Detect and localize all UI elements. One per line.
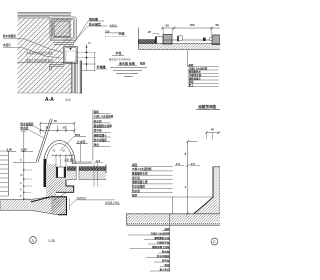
svg-text:水位: 水位 (116, 50, 122, 55)
right slab outline (67, 167, 106, 180)
svg-text:面砖: 面砖 (132, 163, 138, 167)
vertical dim line (188, 141, 198, 213)
sealant dashed rect (66, 51, 76, 62)
right slab end cap (105, 165, 107, 174)
svg-text:水泥钉: 水泥钉 (3, 43, 11, 47)
cut double line (80, 61, 81, 94)
pocket 2 (179, 36, 183, 40)
top line extension (18, 16, 51, 18)
svg-text:防水层: 防水层 (21, 126, 29, 130)
slab hatch (126, 214, 220, 223)
waterstop block bars (56, 167, 58, 178)
dim vertical 1 (86, 44, 88, 71)
svg-text:池底垫层: 池底垫层 (77, 196, 87, 200)
svg-text:密封膏: 密封膏 (88, 16, 98, 21)
dim line top1 (40, 122, 74, 124)
svg-text:防水加强层: 防水加强层 (3, 34, 16, 38)
witness verticals through right slab (94, 162, 98, 186)
dim witness verticals (40, 123, 74, 134)
horizontal ticks from vertical dim (24, 170, 32, 199)
svg-text:防水加强层: 防水加强层 (132, 185, 145, 189)
svg-text:水面: 水面 (119, 31, 125, 36)
radius leader (60, 137, 87, 152)
dim line 3 (82, 63, 96, 65)
upstand block (54, 21, 70, 37)
small tick mid (203, 38, 206, 41)
svg-text:钢筋混凝土壁: 钢筋混凝土壁 (132, 180, 148, 184)
slope transition line (53, 193, 66, 201)
joint slit in right slab (76, 166, 79, 180)
wall inner face (194, 167, 213, 214)
membrane band ring inner (53, 20, 74, 38)
svg-text:20厚找平层: 20厚找平层 (157, 240, 170, 244)
svg-text:找平层: 找平层 (132, 176, 140, 180)
svg-text:外墙缝: 外墙缝 (97, 64, 107, 69)
right slab hatch (67, 171, 106, 180)
slab outline (126, 214, 220, 225)
svg-text:20厚1:2水泥砂浆: 20厚1:2水泥砂浆 (132, 167, 152, 171)
svg-text:聚氨酯防水层: 聚氨酯防水层 (132, 172, 148, 176)
dim line top2 (40, 129, 74, 131)
arch inner (46, 144, 72, 164)
dim dashed line 2 (78, 57, 96, 59)
svg-text:1:5: 1:5 (65, 97, 71, 102)
dim line top (162, 27, 220, 29)
svg-text:-0.3: -0.3 (95, 159, 100, 163)
leaders to slope (34, 126, 47, 133)
svg-text:素混凝土垫层: 素混凝土垫层 (105, 200, 120, 204)
joint square ring outer (64, 47, 78, 64)
svg-text:找平层: 找平层 (94, 129, 102, 133)
membrane band ring mid (51, 18, 75, 39)
slab hatch outline (138, 44, 220, 50)
arch outer (44, 141, 75, 164)
svg-text:C: C (213, 239, 216, 244)
svg-text:-0.5: -0.5 (190, 162, 195, 166)
membrane band ring outer (50, 17, 76, 41)
water symbol lines (110, 67, 147, 69)
dim numbers (20, 159, 23, 198)
svg-text:池壁顶详图: 池壁顶详图 (198, 104, 216, 109)
dim vertical 2 (94, 52, 96, 70)
waterstop block box (56, 167, 66, 178)
svg-text:钢筋混凝土底板: 钢筋混凝土底板 (152, 245, 170, 249)
floor slab right dense part (51, 197, 67, 215)
protective dark strip (139, 40, 156, 44)
curb 2 (212, 35, 220, 45)
arch base line (72, 161, 92, 163)
lower wall top edge (18, 62, 72, 64)
leader 1 from top-right (71, 21, 89, 49)
svg-text:聚氨酯防水层: 聚氨酯防水层 (153, 236, 170, 240)
top dim line (206, 132, 220, 134)
bottom notes rows right-aligned (151, 227, 170, 272)
svg-text:垫层: 垫层 (140, 61, 146, 65)
wall top edge (18, 17, 51, 19)
arch inner dim line (53, 154, 74, 156)
wall hatch (194, 167, 220, 214)
joint square ring inner (65, 48, 76, 62)
curb 1 (163, 35, 172, 45)
band lines below square (49, 65, 64, 67)
svg-text:150: 150 (190, 23, 195, 27)
node dot in joint (70, 48, 72, 50)
svg-text:垫层: 垫层 (132, 193, 138, 197)
band white slot (53, 38, 64, 42)
caption circle C (211, 238, 218, 245)
svg-text:防水层实: 防水层实 (89, 21, 101, 26)
floor slab thick top-right edge (31, 197, 67, 215)
svg-text:聚苯乙烯泡沫塑料板填: 聚苯乙烯泡沫塑料板填 (26, 59, 53, 63)
bottom leader vertical (169, 214, 171, 272)
leader 2 from top-right (73, 26, 88, 43)
floor slab hatch (0, 197, 67, 215)
legend leader vertical (187, 50, 189, 67)
lower wall membrane verticals (73, 61, 77, 94)
svg-text:最高设计水位线标高: 最高设计水位线标高 (109, 57, 131, 61)
wall slope double line (36, 119, 52, 163)
verticals below arch (56, 155, 72, 167)
dim dashed line 1 (78, 51, 96, 53)
water line (13, 161, 36, 163)
left wall hatch (46, 164, 56, 199)
witness lines (163, 28, 212, 35)
mass below joint (56, 178, 74, 193)
svg-text:20厚1:2水泥砂浆: 20厚1:2水泥砂浆 (151, 231, 170, 235)
wall bottom cut (18, 92, 82, 94)
layers legend block d3 (92, 110, 94, 161)
dim line 4 (82, 70, 96, 72)
svg-text:沬青麻丝填缝密实油膏: 沬青麻丝填缝密实油膏 (26, 51, 53, 55)
slab speckle strip (127, 223, 220, 225)
notes block mid (132, 163, 152, 198)
svg-text:1:20: 1:20 (48, 239, 55, 243)
svg-text:A-A: A-A (45, 97, 54, 103)
dark joint bar (44, 159, 47, 187)
lower wall right edge (71, 63, 73, 94)
witness from wall (206, 133, 212, 140)
legend rows (188, 63, 208, 87)
slab top line (155, 39, 212, 41)
dotted water line (105, 35, 127, 37)
pocket 2 bar (177, 36, 178, 42)
vertical dim line (21, 131, 27, 201)
label leader vertical (80, 144, 82, 162)
right slab dark strip (67, 167, 106, 171)
band connector lines (54, 43, 74, 45)
mass step thick outline (56, 180, 74, 193)
svg-text:R50: R50 (75, 133, 81, 137)
sealant bar 1 (155, 37, 157, 44)
svg-text:50: 50 (216, 23, 220, 27)
stair ladder left edge (7, 151, 9, 196)
svg-text:-0.3: -0.3 (175, 162, 180, 166)
sealant pocket 1 (157, 37, 163, 44)
wall hatch (18, 18, 72, 93)
membrane top lines (18, 12, 72, 15)
svg-text:50: 50 (166, 23, 170, 27)
svg-text:止水带: 止水带 (77, 140, 86, 144)
dim dots (86, 46, 88, 48)
svg-text:防水加强层: 防水加强层 (21, 122, 34, 126)
curb 2 step (210, 38, 212, 41)
svg-text:钢筋混凝土: 钢筋混凝土 (94, 133, 107, 137)
svg-text:防水层: 防水层 (132, 189, 140, 193)
svg-text:池水面 标高: 池水面 标高 (119, 61, 135, 66)
svg-text:防水层: 防水层 (162, 249, 170, 253)
svg-text:面砖: 面砖 (164, 227, 170, 231)
mid notes leader down (172, 197, 174, 214)
slab hatch band (138, 44, 220, 50)
dim ticks (161, 27, 212, 30)
dim dots on vertical (23, 151, 24, 152)
slab left cut line (137, 28, 139, 50)
caption circle 3 (30, 237, 37, 244)
